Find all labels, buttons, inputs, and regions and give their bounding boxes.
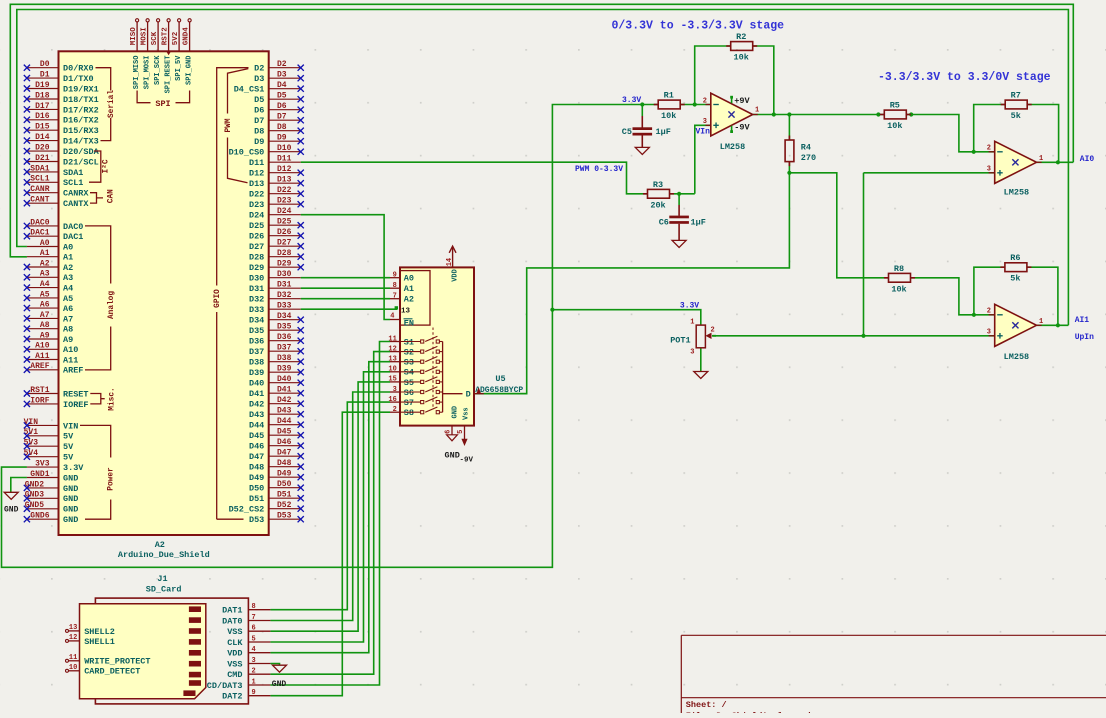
junction at (878.4,114.5) [876,112,880,116]
svg-text:SPI: SPI [155,99,170,109]
svg-text:2: 2 [703,97,707,105]
svg-text:MISO: MISO [130,27,138,46]
junction at (642.3,104.5) [640,102,644,106]
Arduino top pin SPI_MOSI (label MOSI) [147,22,149,52]
svg-text:A6: A6 [63,304,73,314]
svg-text:D7: D7 [277,113,287,122]
mux switch S3 [400,361,421,363]
Arduino pin D19/RX1 (label D19) [27,88,59,90]
svg-text:GND: GND [63,515,78,525]
svg-text:DAC0: DAC0 [63,222,83,232]
svg-text:GND: GND [63,494,78,504]
SD pin SHELL2 [69,630,80,632]
svg-text:D19/RX1: D19/RX1 [63,84,99,94]
wire R7 feedback left leg [974,105,1006,152]
svg-text:D20/SDA: D20/SDA [63,147,100,157]
op-amp U2B LM258 (AI1 stage) [995,304,1037,346]
no-connect X D29 [298,264,304,270]
svg-text:10: 10 [69,664,77,672]
Arduino pin D13 [269,182,301,184]
svg-text:D13: D13 [277,176,292,185]
svg-text:SHELL2: SHELL2 [84,627,115,637]
svg-text:R3: R3 [653,180,663,190]
mux switch S2 [400,351,421,353]
svg-text:D7: D7 [254,116,264,126]
SD card J1 outer body [95,598,248,704]
resistor R1 10k [658,100,680,109]
svg-text:A0: A0 [404,274,414,284]
Arduino top pin SPI_MISO (label MISO) [136,22,138,52]
U2B pin stubs [989,314,995,316]
no-connect X A2 [24,264,30,270]
svg-text:D5: D5 [254,95,264,105]
wire R7 feedback right leg to AI0 output [1027,105,1058,163]
svg-text:10: 10 [388,366,396,374]
svg-text:AI0: AI0 [1080,155,1095,164]
Arduino pin D22 [269,193,301,195]
no-connect X A11 [24,356,30,362]
svg-text:Arduino_Due_Shield: Arduino_Due_Shield [118,550,210,560]
svg-text:1µF: 1µF [691,217,706,227]
svg-text:D29: D29 [249,263,264,273]
svg-text:A5: A5 [63,294,73,304]
svg-text:13: 13 [401,308,411,316]
Arduino pin D31 [269,287,301,289]
svg-text:D2: D2 [254,64,264,74]
Arduino pin A11 (label A11) [27,359,59,361]
svg-text:A1: A1 [404,284,414,294]
svg-text:D16: D16 [35,112,50,121]
svg-text:SCL1: SCL1 [30,175,49,184]
svg-text:D38: D38 [249,358,264,368]
wire PWM net from Arduino D11 to R3 [301,162,648,194]
Misc group bracket [90,394,104,404]
Arduino pin D45 [269,434,301,436]
wire C5 branch down from 3.3V node [641,105,643,117]
svg-text:5V3: 5V3 [24,439,39,448]
svg-text:D27: D27 [277,239,292,248]
no-connect X D41 [298,390,304,396]
svg-text:A7: A7 [63,314,73,324]
svg-text:D28: D28 [277,249,292,258]
Arduino pin D49 [269,476,301,478]
no-connect X D42 [298,401,304,407]
svg-text:5V: 5V [63,442,74,452]
svg-text:D0: D0 [40,60,50,69]
svg-text:5V1: 5V1 [24,428,39,437]
svg-text:GPIO: GPIO [214,289,222,308]
svg-text:GND4: GND4 [183,27,191,46]
svg-text:Sheet: /: Sheet: / [686,700,727,710]
svg-text:D1: D1 [40,71,50,80]
svg-text:A10: A10 [63,345,78,355]
svg-text:D14: D14 [35,133,50,142]
svg-text:D14/TX3: D14/TX3 [63,137,99,147]
no-connect X D13 [298,180,304,186]
svg-text:SDA1: SDA1 [63,168,83,178]
no-connect X D17 [24,106,30,112]
mux pin S4 [390,371,400,373]
svg-text:A7: A7 [40,311,50,320]
mux switch S1 [400,341,421,343]
svg-text:D11: D11 [249,158,264,168]
svg-text:6: 6 [444,430,452,434]
Arduino pin D16/TX2 (label D16) [27,119,59,121]
Arduino pin D27 [269,245,301,247]
svg-text:D9: D9 [277,134,287,143]
mux pin S2 [390,351,400,353]
wire op-amp U2B output to AI1 [1037,324,1069,326]
svg-text:VIN: VIN [24,418,39,427]
Arduino pin 5V (label 5V1) [27,435,59,437]
svg-text:J1: J1 [157,574,167,584]
svg-text:D25: D25 [249,221,264,231]
svg-text:LM258: LM258 [720,142,746,152]
svg-text:D42: D42 [249,400,264,410]
mux pin A2 [390,298,400,300]
no-connect X D7 [298,117,304,123]
svg-text:S1: S1 [404,337,414,347]
svg-text:D12: D12 [277,165,292,174]
svg-text:D4_CS1: D4_CS1 [234,85,265,95]
ground symbol at SD VSS [273,665,287,672]
Arduino top pin SPI_RESET (label RST2) [168,22,170,52]
SD pin DAT2 [248,695,270,697]
no-connect X D48 [298,464,304,470]
svg-text:D35: D35 [249,326,264,336]
svg-text:VDD: VDD [227,649,242,659]
svg-text:CANR: CANR [30,185,49,194]
svg-text:0/3.3V to -3.3/3.3V stage: 0/3.3V to -3.3/3.3V stage [612,20,785,33]
junction at (694.7,104.5) [693,102,697,106]
no-connect X D21 [24,158,30,164]
mux switch S5 [400,381,421,383]
svg-text:D45: D45 [277,428,292,437]
wire SD DAT1 to mux S7 [270,402,390,610]
no-connect X D20 [24,148,30,154]
svg-text:D17: D17 [35,102,50,111]
Arduino pin D1/TX0 (label D1) [27,77,59,79]
svg-text:D36: D36 [277,333,292,342]
svg-text:LM258: LM258 [1004,188,1030,198]
mux U5 body [400,267,474,425]
wire R4 bottom node to R8 and mux D [789,162,888,278]
Arduino pin GND (label GND5) [27,508,59,510]
svg-text:11: 11 [69,654,77,662]
svg-text:D26: D26 [277,228,292,237]
SD card shape [80,604,206,699]
SD pin VDD [248,652,270,654]
svg-text:CLK: CLK [227,638,243,648]
Arduino pin SDA1 (label SDA1) [27,171,59,173]
svg-text:D42: D42 [277,396,292,405]
svg-text:D37: D37 [277,344,292,353]
svg-text:D25: D25 [277,218,292,227]
svg-text:R6: R6 [1010,253,1020,263]
svg-text:D41: D41 [277,386,292,395]
U1 pin stubs [706,104,711,106]
no-connect X A10 [24,346,30,352]
Arduino pin 3.3V (label 3V3) [27,466,59,468]
no-connect X SCL1 [24,179,30,185]
svg-text:SPI_5V: SPI_5V [175,55,183,81]
no-connect X D37 [298,348,304,354]
svg-text:D15: D15 [35,123,50,132]
wire SD VSS6 to mux S5 [270,382,390,631]
SD pin CD/DAT3 [248,684,270,686]
wire C6 branch down [678,194,680,205]
svg-text:Analog: Analog [108,291,116,319]
no-connect X D34 [298,317,304,323]
mux pin S1 [390,341,400,343]
wire R2 feedback left leg [695,46,731,105]
Arduino pin A9 (label A9) [27,338,59,340]
no-connect X AREF [24,367,30,373]
svg-text:D3: D3 [254,74,264,84]
I2C group bracket [89,151,101,182]
Arduino pin D4_CS1 [269,88,301,90]
no-connect X VIN [24,422,30,428]
svg-text:AREF: AREF [63,366,83,376]
Arduino pin D50 [269,487,301,489]
svg-text:D21: D21 [35,154,50,163]
wire net A1 to AI0 (top outer loop) [10,4,1073,256]
Arduino pin D26 [269,235,301,237]
svg-text:1: 1 [690,319,694,327]
CAN group bracket [90,193,103,203]
svg-text:13: 13 [69,624,77,632]
svg-text:7: 7 [252,614,256,622]
svg-text:15: 15 [388,376,396,384]
svg-text:2: 2 [393,406,397,414]
no-connect X D53 [298,516,304,522]
svg-text:10k: 10k [734,53,749,63]
Power group bracket [80,425,111,519]
no-connect X D38 [298,359,304,365]
svg-text:SCK: SCK [151,31,159,45]
wire R4 bottom node down to mux D output [474,173,789,394]
svg-text:D46: D46 [249,442,264,452]
svg-text:D44: D44 [277,417,292,426]
Arduino pin DAC0 (label DAC0) [27,225,59,227]
svg-text:A5: A5 [40,290,50,299]
svg-text:D33: D33 [249,305,264,315]
svg-text:-9V: -9V [734,123,750,133]
no-connect X D5 [298,96,304,102]
svg-text:10k: 10k [661,111,676,121]
svg-text:GND6: GND6 [30,512,49,521]
svg-text:D51: D51 [277,491,292,500]
junction at (789.4,172.8) [787,171,791,175]
svg-text:SPI_GND: SPI_GND [186,56,194,85]
svg-text:DAC1: DAC1 [63,232,83,242]
svg-text:R4: R4 [801,142,811,152]
svg-text:S4: S4 [404,368,414,378]
svg-text:D5: D5 [277,92,287,101]
no-connect X D51 [298,495,304,501]
no-connect X GND3 [24,495,30,501]
svg-text:D26: D26 [249,232,264,242]
svg-text:D8: D8 [277,123,287,132]
svg-text:D34: D34 [277,312,292,321]
svg-text:D47: D47 [277,449,292,458]
Arduino pin D35 [269,329,301,331]
no-connect X D22 [298,191,304,197]
svg-text:D51: D51 [249,494,264,504]
svg-text:VSS: VSS [227,659,242,669]
svg-text:RST1: RST1 [30,386,49,395]
mux pin S3 [390,361,400,363]
Arduino pin IOREF (label IORF) [27,403,59,405]
svg-text:5: 5 [252,635,256,643]
Arduino pin D34 [269,319,301,321]
Arduino pin D46 [269,445,301,447]
op-amp U1 LM258 (first stage) [711,93,753,136]
svg-text:D43: D43 [249,410,264,420]
svg-text:AI1: AI1 [1075,316,1090,325]
svg-text:PWM 0-3.3V: PWM 0-3.3V [575,165,623,174]
no-connect X A9 [24,336,30,342]
svg-text:D49: D49 [277,470,292,479]
Arduino pin GND (label GND3) [27,497,59,499]
mux switch S6 [400,391,421,393]
svg-text:A11: A11 [35,352,50,361]
svg-text:SDA1: SDA1 [30,164,49,173]
svg-text:GND: GND [63,505,78,515]
svg-text:SPI_SCK: SPI_SCK [154,55,162,85]
Arduino pin D23 [269,203,301,205]
svg-text:DAT1: DAT1 [222,606,242,616]
svg-text:D24: D24 [249,211,264,221]
Arduino pin A0 (label A0) [27,246,59,248]
svg-text:D28: D28 [249,253,264,263]
wire SD DAT2 to mux S8 [270,412,390,696]
Arduino pin D48 [269,466,301,468]
wire R2 feedback right leg to output [753,46,774,115]
svg-text:5V: 5V [63,432,74,442]
Arduino pin D47 [269,455,301,457]
svg-text:5: 5 [457,430,465,434]
no-connect X GND6 [24,516,30,522]
Arduino pin D5 [269,98,301,100]
Arduino pin D32 [269,298,301,300]
no-connect X D1 [24,75,30,81]
svg-text:CANRX: CANRX [63,189,89,199]
mux switch S8 [400,411,421,413]
junction at (863.5,335.8) [861,334,865,338]
svg-text:Serial: Serial [108,90,116,118]
no-connect X DAC0 [24,223,30,229]
svg-text:11: 11 [388,335,396,343]
svg-text:A11: A11 [63,355,78,365]
Arduino pin D36 [269,340,301,342]
Arduino pin A3 (label A3) [27,276,59,278]
potentiometer POT1 [696,325,705,348]
SD pin DAT1 [248,609,270,611]
svg-text:D13: D13 [249,179,264,189]
Arduino pin D18/TX1 (label D18) [27,98,59,100]
no-connect X A3 [24,274,30,280]
Arduino pin D44 [269,424,301,426]
Arduino pin 5V (label 5V4) [27,456,59,458]
SD card contact pads [189,606,201,612]
svg-text:6: 6 [252,625,256,633]
Arduino pin D53 [269,518,301,520]
svg-text:1: 1 [1039,318,1043,326]
svg-text:CMD: CMD [227,670,242,680]
svg-text:D34: D34 [249,316,264,326]
svg-text:D12: D12 [249,169,264,179]
svg-text:D39: D39 [249,368,264,378]
Arduino pin D9 [269,140,301,142]
svg-text:D0/RX0: D0/RX0 [63,64,94,74]
svg-text:D6: D6 [254,106,264,116]
svg-text:A8: A8 [40,321,50,330]
svg-text:EN: EN [404,319,414,329]
no-connect X D36 [298,338,304,344]
Arduino pin RESET (label RST1) [27,393,59,395]
svg-text:13: 13 [388,356,396,364]
Arduino pin VIN (label VIN) [27,424,59,426]
Arduino pin D30 [269,277,301,279]
no-connect X A7 [24,315,30,321]
svg-text:WRITE_PROTECT: WRITE_PROTECT [84,657,150,667]
title block border [681,634,1106,636]
svg-text:S5: S5 [404,378,414,388]
svg-text:3.3V: 3.3V [680,301,699,310]
wire POT node to op-amp U2A pin 3 [864,172,995,174]
junction at (973.7,151.8) [972,150,976,154]
Arduino pin CANRX (label CANR) [27,192,59,194]
svg-text:D8: D8 [254,127,264,137]
no-connect X D0 [24,65,30,71]
svg-text:RST2: RST2 [162,27,170,46]
svg-text:3.3V: 3.3V [63,463,84,473]
wire mux D output [484,393,527,395]
svg-text:9: 9 [252,689,256,697]
wire SD CMD to mux S2 [270,352,390,675]
resistor R4 270 (vertical) [785,140,794,162]
svg-text:IOREF: IOREF [63,400,89,410]
svg-text:D: D [466,390,471,400]
SD pin CARD_DETECT [69,670,80,672]
no-connect X D28 [298,254,304,260]
svg-text:GND: GND [4,506,19,515]
svg-text:VIn: VIn [696,127,711,136]
svg-text:3: 3 [393,386,397,394]
resistor R5 10k [884,110,906,119]
wire SD CD/DAT3 to mux S1 [270,342,390,686]
svg-text:3.3V: 3.3V [622,96,641,105]
no-connect X D10 [298,149,304,155]
SPI group bracket [137,91,150,103]
svg-text:D3: D3 [277,71,287,80]
wire POT1 bottom to ground [700,348,702,372]
Arduino pin D21/SCL (label D21) [27,161,59,163]
svg-text:D50: D50 [249,484,264,494]
svg-text:PWM: PWM [225,118,233,132]
inverted-pin mark on SPI_RESET [166,51,171,55]
SD pin CMD [248,673,270,675]
Arduino pin D52_CS2 [269,508,301,510]
Arduino pin AREF (label AREF) [27,369,59,371]
no-connect X A5 [24,295,30,301]
svg-text:S6: S6 [404,388,414,398]
svg-text:3: 3 [987,166,991,174]
mux pin S8 [390,411,400,413]
svg-text:A1: A1 [63,253,73,263]
mux pin S5 [390,381,400,383]
